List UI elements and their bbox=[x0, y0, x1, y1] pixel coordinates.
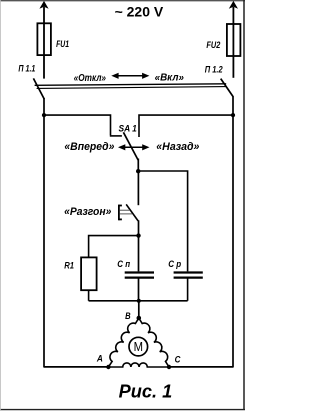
svg-text:П 1.2: П 1.2 bbox=[205, 64, 223, 74]
svg-text:~ 220 V: ~ 220 V bbox=[115, 4, 164, 20]
svg-text:«Разгон»: «Разгон» bbox=[64, 206, 111, 218]
svg-text:C р: C р bbox=[168, 259, 181, 269]
svg-text:M: M bbox=[134, 340, 143, 354]
svg-text:SA 1: SA 1 bbox=[119, 124, 137, 134]
svg-text:«Вперед»: «Вперед» bbox=[64, 141, 114, 153]
svg-text:FU2: FU2 bbox=[206, 40, 220, 50]
svg-text:С: С bbox=[175, 354, 181, 364]
svg-text:А: А bbox=[96, 354, 103, 364]
svg-text:«Вкл»: «Вкл» bbox=[155, 72, 185, 83]
svg-text:В: В bbox=[125, 311, 131, 321]
svg-text:Рис. 1: Рис. 1 bbox=[119, 381, 173, 402]
svg-text:C п: C п bbox=[117, 259, 130, 269]
svg-text:R1: R1 bbox=[64, 260, 74, 270]
svg-text:«Откл»: «Откл» bbox=[74, 73, 107, 84]
svg-text:«Назад»: «Назад» bbox=[156, 141, 199, 153]
svg-text:П 1.1: П 1.1 bbox=[18, 63, 35, 73]
svg-text:FU1: FU1 bbox=[56, 39, 69, 49]
